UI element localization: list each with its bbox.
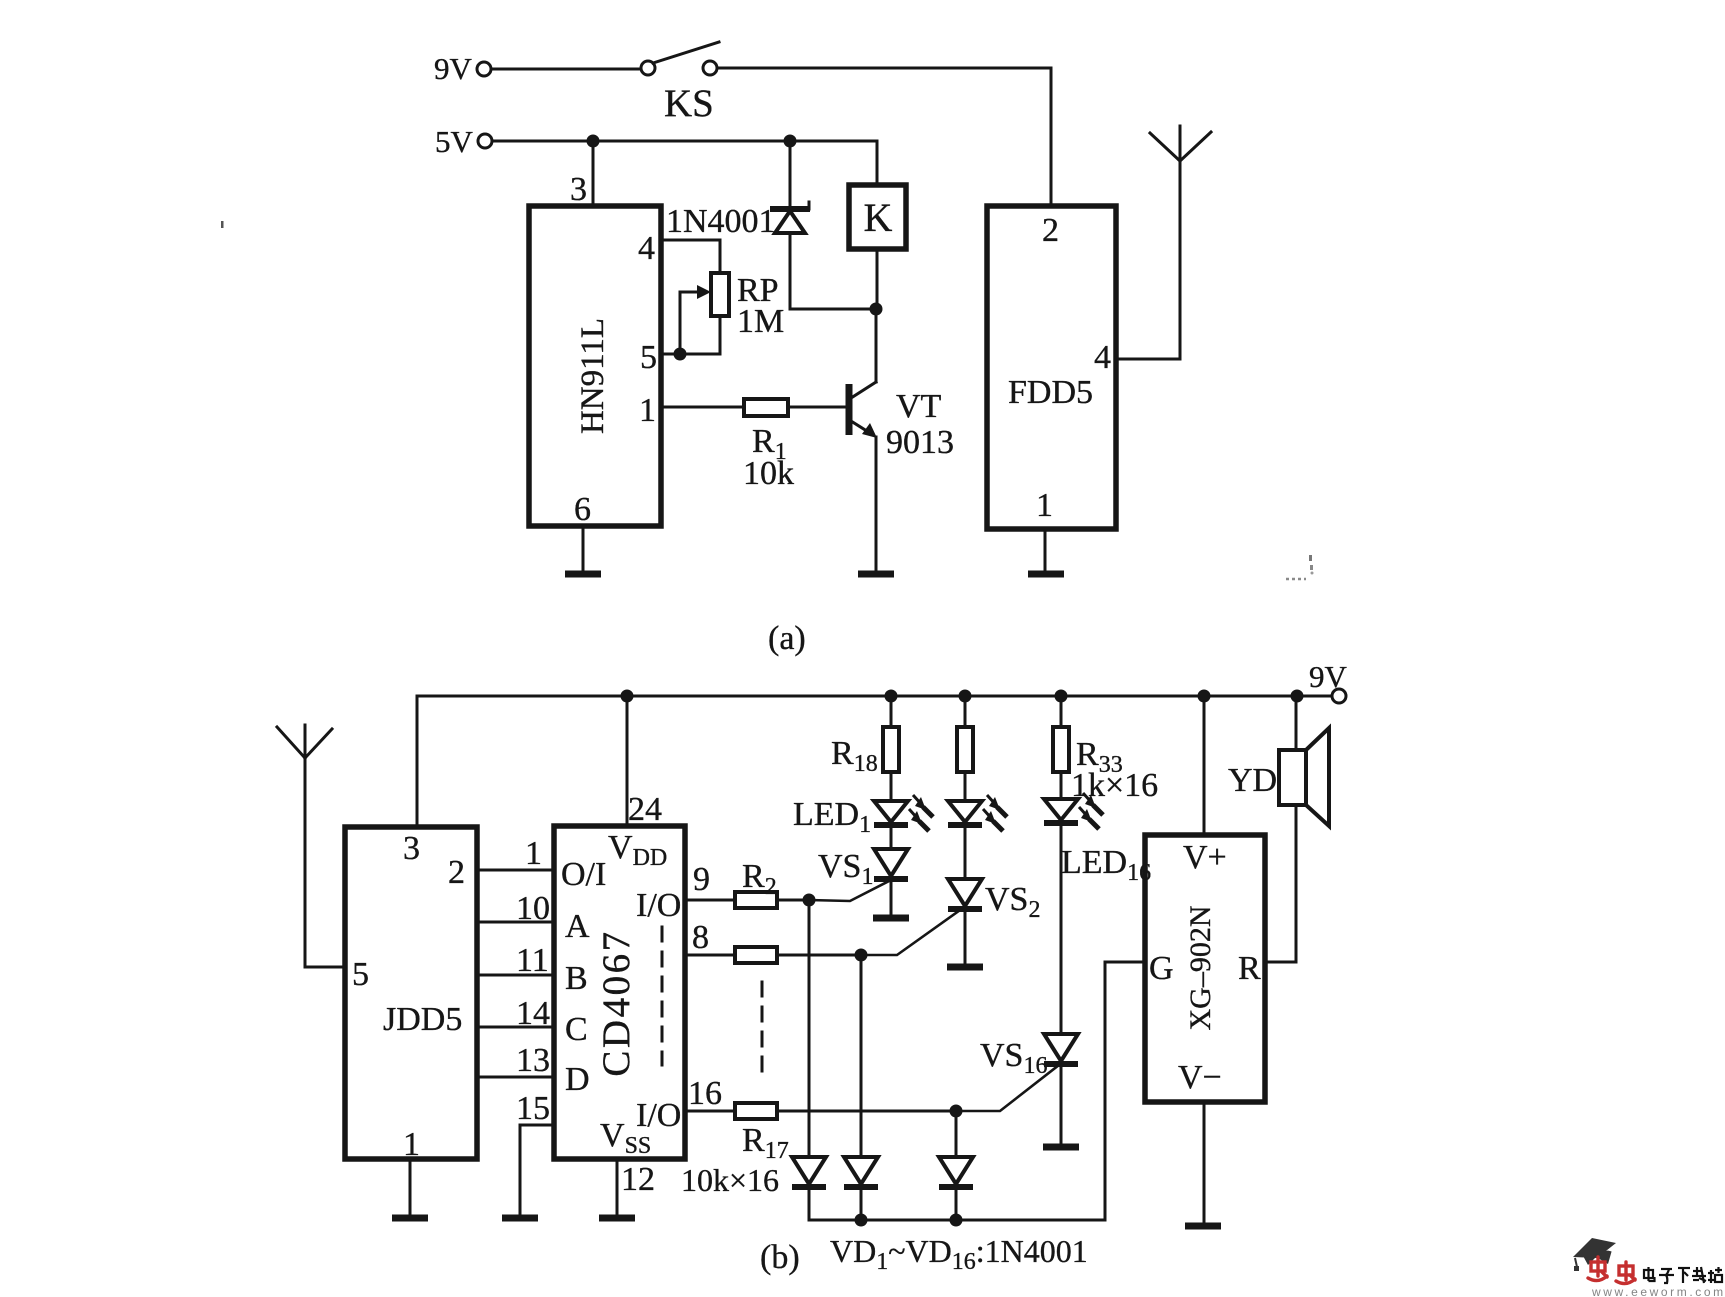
svg-text:VT: VT	[896, 388, 942, 425]
svg-text:16: 16	[688, 1075, 722, 1112]
svg-text:JDD5: JDD5	[383, 1001, 462, 1038]
svg-text:15: 15	[516, 1090, 550, 1127]
svg-text:1M: 1M	[737, 303, 784, 340]
svg-text:www.eeworm.com: www.eeworm.com	[1591, 1285, 1725, 1297]
svg-text:10k×16: 10k×16	[681, 1162, 779, 1198]
svg-text:4: 4	[638, 230, 655, 267]
svg-text:LED16: LED16	[1061, 844, 1151, 886]
svg-text:I/O: I/O	[636, 887, 681, 924]
svg-text:KS: KS	[664, 82, 714, 125]
svg-text:V+: V+	[1183, 839, 1227, 876]
svg-text:FDD5: FDD5	[1008, 374, 1093, 411]
svg-text:11: 11	[516, 942, 549, 979]
svg-text:R17: R17	[742, 1122, 789, 1164]
svg-text:5: 5	[352, 956, 369, 993]
svg-text:1k×16: 1k×16	[1071, 767, 1158, 804]
svg-text:4: 4	[1094, 339, 1111, 376]
svg-text:13: 13	[516, 1042, 550, 1079]
svg-text:1: 1	[525, 835, 542, 872]
svg-text:10: 10	[516, 890, 550, 927]
svg-text:(b): (b)	[760, 1239, 800, 1276]
svg-text:C: C	[565, 1011, 588, 1048]
svg-text:9V: 9V	[1309, 659, 1348, 694]
svg-text:I/O: I/O	[636, 1097, 681, 1134]
svg-text:1: 1	[403, 1126, 420, 1163]
svg-text:5V: 5V	[435, 124, 474, 159]
svg-text:A: A	[565, 908, 590, 945]
svg-text:12: 12	[621, 1161, 655, 1198]
svg-text:24: 24	[628, 791, 662, 828]
svg-text:R2: R2	[742, 858, 777, 900]
svg-text:14: 14	[516, 995, 550, 1032]
svg-text:V−: V−	[1178, 1059, 1222, 1096]
svg-text:K: K	[864, 195, 893, 240]
svg-text:VS1: VS1	[818, 848, 873, 890]
svg-text:R18: R18	[831, 735, 878, 777]
svg-text:3: 3	[570, 171, 587, 208]
svg-text:B: B	[565, 960, 588, 997]
svg-text:5: 5	[640, 339, 657, 376]
svg-text:LED1: LED1	[793, 796, 871, 838]
svg-text:1: 1	[639, 392, 656, 429]
svg-text:10k: 10k	[743, 455, 794, 492]
svg-text:YD: YD	[1228, 762, 1277, 799]
svg-text:R: R	[1238, 950, 1261, 987]
svg-text:D: D	[565, 1061, 590, 1098]
svg-text:VS16: VS16	[980, 1037, 1047, 1079]
svg-text:8: 8	[692, 919, 709, 956]
svg-text:9V: 9V	[434, 51, 473, 86]
svg-text:VS2: VS2	[985, 881, 1040, 923]
svg-text:9: 9	[693, 861, 710, 898]
svg-text:6: 6	[574, 491, 591, 528]
svg-text:9013: 9013	[886, 424, 954, 461]
svg-text:3: 3	[403, 830, 420, 867]
svg-text:1N4001: 1N4001	[666, 203, 776, 240]
svg-text:G: G	[1149, 950, 1174, 987]
svg-text:O/I: O/I	[561, 856, 606, 893]
svg-text:VDD: VDD	[608, 829, 667, 871]
svg-text:2: 2	[448, 854, 465, 891]
svg-text:XG–902N: XG–902N	[1184, 906, 1217, 1031]
svg-text:VD1~VD16:1N4001: VD1~VD16:1N4001	[830, 1233, 1088, 1275]
svg-text:CD4067: CD4067	[595, 929, 638, 1076]
svg-text:(a): (a)	[768, 620, 806, 657]
svg-text:1: 1	[1036, 487, 1053, 524]
svg-text:2: 2	[1042, 212, 1059, 249]
svg-text:HN911L: HN911L	[575, 318, 611, 434]
